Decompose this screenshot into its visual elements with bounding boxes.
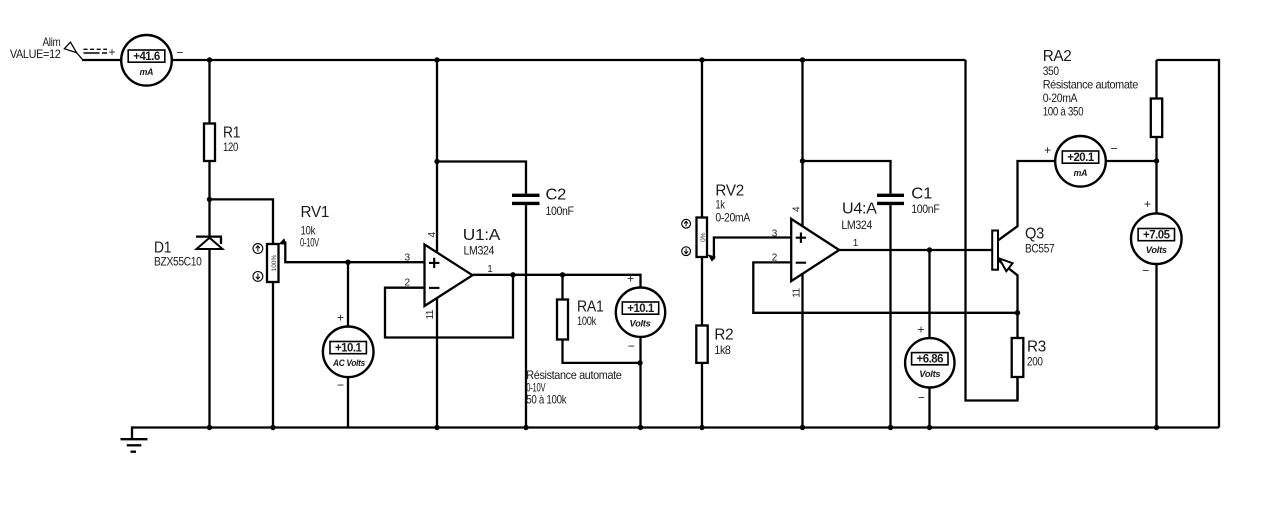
wire: D1 cathode to ground rail: [208, 249, 210, 428]
RV1 decrement marker: [253, 272, 263, 282]
svg-text:Volts: Volts: [1146, 245, 1167, 256]
svg-text:−: −: [918, 391, 925, 405]
svg-text:100nF: 100nF: [546, 204, 574, 218]
svg-text:Volts: Volts: [919, 369, 940, 380]
svg-text:120: 120: [223, 140, 239, 154]
node: wiper wire / voltmeter VM1: [345, 260, 350, 265]
svg-text:+6.86: +6.86: [917, 353, 944, 365]
svg-text:R1: R1: [223, 125, 240, 142]
wire: U1 positive supply (pin 4): [436, 60, 438, 253]
svg-text:U1:A: U1:A: [463, 227, 501, 244]
capacitor C2: [512, 194, 540, 197]
svg-text:mA: mA: [140, 67, 154, 78]
wire: C2 top branch: [437, 162, 526, 194]
node: rail / U4 supply: [800, 57, 805, 62]
node: ground rail / D1: [207, 425, 212, 430]
svg-text:BC557: BC557: [1025, 242, 1055, 256]
node: rail / U1 supply: [434, 57, 439, 62]
svg-text:R3: R3: [1027, 338, 1046, 355]
svg-text:R2: R2: [714, 327, 733, 344]
wire: C1 top branch: [803, 161, 891, 194]
wire: node to RV1 top: [210, 199, 274, 244]
node: R1 / D1 / RV1: [207, 197, 212, 202]
svg-text:100%: 100%: [271, 254, 278, 271]
svg-text:0-10V: 0-10V: [300, 236, 319, 250]
wire: U1 feedback loop output to pin 2: [385, 275, 513, 338]
svg-text:AC Volts: AC Volts: [332, 358, 365, 369]
resistor R3: [1012, 338, 1024, 377]
svg-text:+7.05: +7.05: [1143, 229, 1171, 241]
wire: top supply rail: [172, 59, 966, 61]
wire: voltmeter VM2 to ground rail: [639, 337, 641, 428]
RV2 increment marker: [682, 219, 691, 228]
svg-text:11: 11: [791, 287, 802, 297]
node: ground rail / U4 supply: [800, 425, 805, 430]
wire: ammeter AM2 to RA2 branch: [1106, 160, 1157, 162]
node: ground rail / R2: [699, 425, 704, 430]
wire: U1 output (pin 1): [473, 275, 641, 288]
node: supply line / C1 branch: [800, 158, 805, 163]
wire: C1 bottom to ground rail: [889, 205, 891, 427]
voltmeter VM4: [1131, 213, 1182, 264]
wire: voltmeter VM3 to ground rail: [928, 387, 930, 428]
wire: U4 negative supply (pin 11) to ground rail: [801, 274, 803, 428]
ground: [131, 426, 133, 439]
node: Q3 emitter / R3 / feedback: [1015, 310, 1020, 315]
svg-text:−: −: [1142, 264, 1149, 278]
svg-text:0-20mA: 0-20mA: [1043, 91, 1078, 105]
svg-text:BZX55C10: BZX55C10: [154, 255, 202, 269]
svg-text:+10.1: +10.1: [335, 342, 363, 354]
voltmeter VM3: [905, 338, 954, 387]
wire: RA1 branch and bottom link: [563, 275, 641, 363]
svg-text:+: +: [1044, 143, 1051, 157]
svg-text:0-20mA: 0-20mA: [715, 211, 750, 225]
RV1 increment marker: [253, 244, 263, 254]
capacitor C1: [877, 194, 904, 197]
wire: R1 branch upper: [208, 60, 210, 237]
svg-text:1k: 1k: [715, 198, 725, 212]
svg-text:+20.1: +20.1: [1067, 152, 1095, 164]
svg-text:VALUE=12: VALUE=12: [10, 47, 61, 61]
wire: node to voltmeter VM1: [347, 262, 349, 327]
wire: rail right drop to R3 bottom: [966, 60, 1018, 401]
svg-text:100k: 100k: [577, 314, 597, 328]
voltmeter VM2: [616, 288, 665, 337]
resistor RA1: [557, 300, 568, 340]
wire: voltmeter VM4 to ground rail: [1155, 264, 1157, 428]
svg-text:+: +: [108, 45, 115, 59]
svg-text:Résistance automate: Résistance automate: [1043, 77, 1139, 91]
svg-text:Q3: Q3: [1025, 226, 1044, 243]
svg-text:350: 350: [1043, 64, 1060, 78]
node: ground rail / RV1: [270, 425, 275, 430]
op-amp U4: [791, 219, 839, 281]
wire: U4 positive supply (pin 4): [801, 60, 803, 226]
RV2 wiper arrow: [708, 254, 716, 262]
wire: RA2 branch upper: [1155, 60, 1157, 213]
node: supply line / C2 branch: [434, 159, 439, 164]
wire: RV1 bottom to ground rail: [272, 282, 274, 428]
node: ground rail / VM3: [927, 425, 932, 430]
wire: U1 negative supply (pin 11) to ground rail: [436, 298, 438, 428]
node: rail / RV2 branch: [699, 57, 704, 62]
svg-text:0%: 0%: [700, 232, 707, 242]
node: AM2 / RA2 branch: [1154, 158, 1159, 163]
op-amp U1: [425, 245, 473, 307]
svg-text:50 à 100k: 50 à 100k: [526, 393, 567, 407]
svg-text:−: −: [337, 378, 344, 392]
power terminal Alim: [64, 42, 76, 53]
wire: RV2 / R2 branch: [701, 60, 703, 428]
potentiometer RV2: [697, 218, 708, 258]
svg-text:RA2: RA2: [1043, 48, 1072, 65]
svg-text:+: +: [337, 311, 344, 325]
svg-text:+41.6: +41.6: [133, 51, 160, 63]
svg-text:LM324: LM324: [464, 244, 495, 258]
svg-text:100 à 350: 100 à 350: [1043, 104, 1084, 118]
svg-text:−: −: [176, 46, 183, 60]
svg-text:100nF: 100nF: [911, 202, 939, 216]
node: ground rail / C2: [523, 425, 528, 430]
wire: terminal to ammeter AM1: [82, 59, 121, 61]
node: ground rail / C1: [888, 425, 893, 430]
node: RA1 bottom / VM2: [637, 360, 642, 365]
svg-text:+10.1: +10.1: [627, 303, 655, 315]
wire: voltmeter VM1 to ground rail: [347, 377, 349, 427]
wire: U4 feedback loop pin 2 to Q3 emitter node: [753, 262, 1017, 312]
voltmeter VM1 AC: [323, 327, 374, 378]
svg-text:RV1: RV1: [301, 204, 330, 221]
node: ground rail / VM2: [638, 425, 643, 430]
svg-text:C2: C2: [546, 187, 567, 204]
svg-text:+: +: [917, 323, 924, 337]
wire: Q3 emitter to R3: [998, 260, 1018, 401]
svg-text:200: 200: [1027, 355, 1043, 369]
node: U1 output / RA1: [560, 272, 565, 277]
node: U4 output / voltmeter VM3: [927, 247, 932, 252]
svg-text:11: 11: [425, 309, 436, 319]
svg-text:−: −: [628, 339, 635, 353]
diode D1 zener: [196, 235, 222, 237]
svg-text:mA: mA: [1074, 168, 1088, 179]
RV2 decrement marker: [682, 247, 691, 256]
svg-text:1k8: 1k8: [714, 343, 731, 357]
svg-text:U4:A: U4:A: [842, 200, 877, 217]
wire: right return loop: [1157, 60, 1220, 428]
wire: node to voltmeter VM3: [928, 250, 930, 339]
svg-text:+: +: [627, 272, 634, 286]
node: ground rail / VM4: [1154, 425, 1159, 430]
svg-text:−: −: [1110, 142, 1117, 156]
ammeter AM2: [1055, 136, 1106, 187]
RV1 wiper arrow: [279, 238, 287, 244]
node: ground rail / U1 supply: [434, 425, 439, 430]
transistor Q3: [992, 231, 998, 270]
node: U1 output / feedback: [510, 272, 515, 277]
ammeter AM1: [121, 35, 172, 86]
svg-text:+: +: [1144, 197, 1151, 211]
resistor R1: [204, 124, 215, 162]
svg-text:LM324: LM324: [841, 218, 872, 232]
svg-text:Volts: Volts: [630, 319, 651, 330]
node: rail / R1: [207, 57, 212, 62]
svg-text:C1: C1: [911, 185, 932, 202]
wire: C2 bottom to ground rail: [525, 205, 527, 427]
wire: RV2 wiper to U4 pin 3: [714, 238, 791, 260]
potentiometer RV1: [267, 244, 279, 282]
wire: Q3 collector to ammeter AM2: [998, 161, 1055, 240]
wire: U4 output (pin 1) to Q3 base: [839, 249, 992, 251]
wire: ground rail: [132, 426, 1219, 428]
resistor RA2: [1151, 99, 1162, 138]
resistor R2: [696, 326, 707, 363]
DC supply symbol: [84, 48, 108, 50]
wire: RV1 wiper to U1 pin 3: [285, 242, 424, 263]
